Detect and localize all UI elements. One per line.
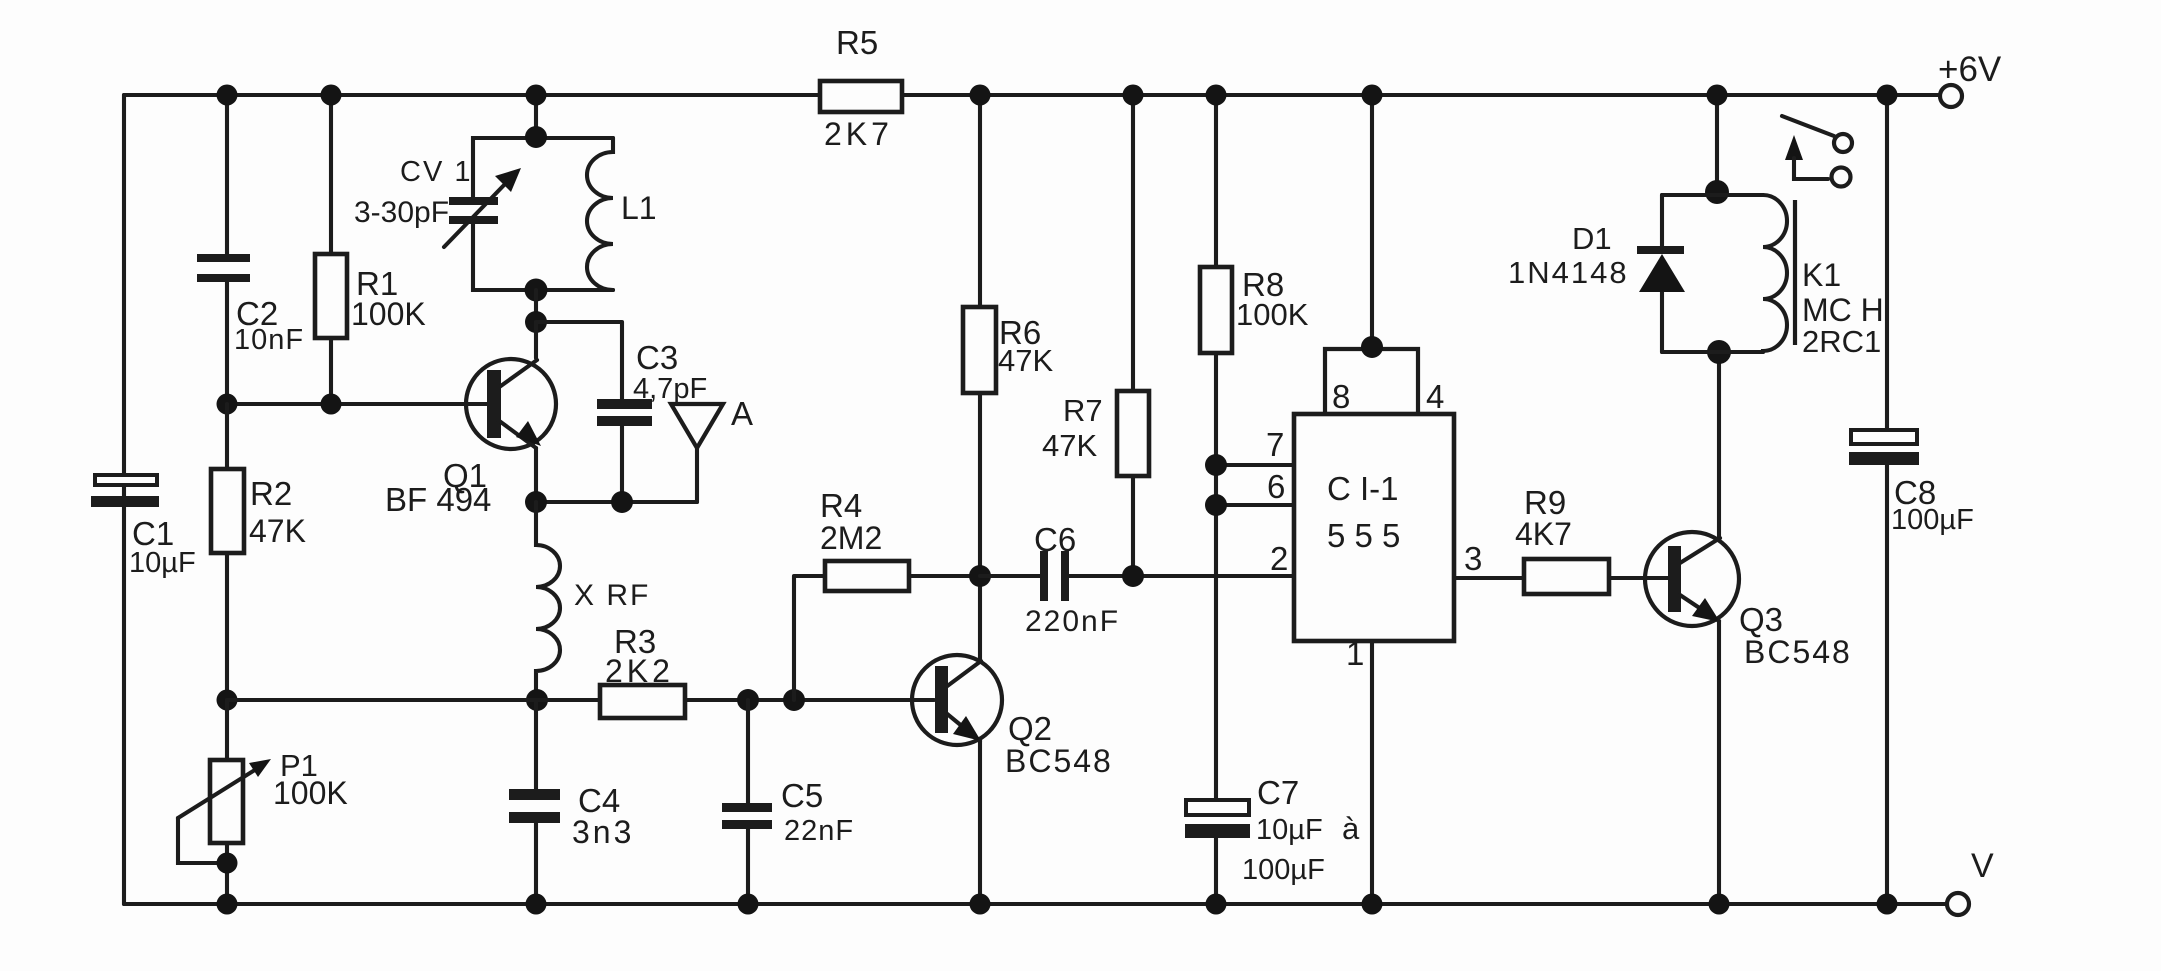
wire: C6 to 555 pin 2 (trigger net) — [1069, 574, 1294, 578]
wire: Q1 base net (C2, R1, R2 junction to base) — [227, 402, 487, 406]
resistor R9 4K7 — [1515, 484, 1668, 594]
node: pin 6 tap — [1205, 494, 1227, 516]
node: bottom rail at C5 column — [738, 894, 759, 915]
svg-text:22nF: 22nF — [784, 815, 854, 847]
svg-text:47K: 47K — [998, 343, 1053, 378]
node: pin 7 tap — [1205, 454, 1227, 476]
wire: R8 / C7 column — [1214, 95, 1218, 904]
svg-text:C7: C7 — [1257, 774, 1299, 811]
node: base net at R1 column — [321, 394, 342, 415]
svg-text:220nF: 220nF — [1025, 605, 1120, 638]
svg-text:R4: R4 — [820, 487, 862, 524]
wire: P1 column — [225, 700, 229, 904]
node: emitter net at R2 column — [217, 690, 238, 711]
svg-text:D1: D1 — [1572, 221, 1612, 256]
terminal: +6V — [1938, 50, 2002, 107]
node: top rail junction at C2 column — [217, 85, 238, 106]
svg-text:2K2: 2K2 — [605, 653, 674, 689]
svg-text:47K: 47K — [1042, 428, 1097, 463]
svg-text:4,7pF: 4,7pF — [633, 373, 707, 405]
resistor R4 2M2 — [820, 487, 980, 591]
svg-text:BC548: BC548 — [1744, 634, 1852, 670]
op-amp/IC CI-1 555 — [1266, 378, 1482, 672]
node: bottom rail at pin 1 — [1362, 894, 1383, 915]
svg-text:+6V: +6V — [1938, 50, 2002, 89]
svg-text:2M2: 2M2 — [820, 520, 882, 556]
svg-text:8: 8 — [1332, 378, 1350, 415]
svg-text:Q3: Q3 — [1739, 601, 1783, 638]
node: P1 wiper tie to bottom terminal — [217, 853, 238, 874]
potentiometer P1 100K (rheostat) — [178, 748, 348, 863]
wire: pin 6 link — [1216, 503, 1294, 507]
wire: bottom 0V rail — [124, 902, 1947, 906]
svg-text:1: 1 — [1346, 635, 1364, 672]
wire: R7 column — [1131, 95, 1135, 576]
svg-text:100K: 100K — [273, 775, 348, 811]
svg-text:10µF: 10µF — [129, 547, 196, 579]
svg-text:C5: C5 — [781, 777, 823, 814]
svg-text:R2: R2 — [250, 475, 292, 512]
node: R7 tap on trigger net — [1122, 565, 1144, 587]
node: top rail junction at R6 — [970, 85, 991, 106]
node: top rail junction at tank column — [526, 85, 547, 106]
node: C5 junction — [737, 689, 759, 711]
node: XRF / R3 / R2 junction — [526, 689, 548, 711]
capacitor C1 10uF (electrolytic, left branch) — [91, 475, 196, 579]
svg-text:Q2: Q2 — [1008, 710, 1052, 747]
wire: C4 column — [534, 700, 538, 904]
wire: R6 / Q2 collector column — [978, 95, 982, 576]
wire: D1/coil top and bottom links — [1662, 195, 1763, 352]
wire: C8 column — [1885, 95, 1889, 904]
wire: left border (C1 branch from +6V rail to 0V rail) — [122, 95, 126, 904]
wire: tank column from +6V rail — [534, 95, 538, 138]
svg-text:BF 494: BF 494 — [385, 481, 491, 518]
resistor R3 2K2 — [600, 623, 685, 718]
node: R4 junction — [783, 689, 805, 711]
node: bottom rail at C4 column — [526, 894, 547, 915]
relay contact switch — [1782, 116, 1852, 187]
node: bottom rail at P1 column — [217, 894, 238, 915]
wire: pin 3 output to R9 — [1454, 576, 1524, 580]
svg-text:CV 1: CV 1 — [400, 156, 472, 188]
svg-text:3n3: 3n3 — [572, 814, 634, 850]
svg-text:100µF: 100µF — [1242, 854, 1325, 886]
node: emitter junction — [525, 491, 547, 513]
node: base net at C2 column — [217, 394, 238, 415]
capacitor C7 10uF a 100uF (electrolytic) — [1185, 774, 1360, 886]
svg-text:C6: C6 — [1034, 521, 1076, 558]
node: R4 / C6 / collector junction — [969, 565, 991, 587]
svg-text:47K: 47K — [249, 513, 306, 549]
wire: LC tank loop (top, left branch, bottom) — [473, 138, 613, 290]
wire: emitter bias net — [227, 698, 600, 702]
resistor R7 47K — [1042, 391, 1149, 476]
svg-text:A: A — [731, 395, 753, 432]
svg-text:5 5 5: 5 5 5 — [1327, 517, 1400, 554]
resistor R6 47K — [963, 307, 1053, 393]
svg-text:R7: R7 — [1063, 393, 1103, 428]
wire: Q1 emitter node to antenna tap — [536, 448, 697, 502]
node: tank bottom junction — [525, 279, 548, 302]
resistor R5 2K7 (supply rail) — [820, 24, 902, 152]
node: top rail junction at relay — [1707, 85, 1728, 106]
capacitor C2 10nF — [197, 254, 304, 356]
svg-text:C3: C3 — [636, 339, 678, 376]
node: relay top junction — [1705, 180, 1729, 204]
transistor Q1 BF494 — [385, 322, 556, 518]
wire: relay column from +6V rail — [1715, 95, 1719, 192]
svg-text:V: V — [1971, 847, 1994, 885]
wire: tank bottom to Q1 collector node — [534, 290, 538, 322]
wire: R1 column — [329, 95, 333, 404]
resistor R2 47K — [211, 469, 306, 553]
wire: C5 column — [746, 700, 750, 904]
svg-text:3-30pF: 3-30pF — [354, 196, 449, 229]
relay coil K1 MCH 2RC1 — [1763, 195, 1884, 359]
node: bottom rail at C7 column — [1206, 894, 1227, 915]
capacitor C4 3n3 — [509, 782, 634, 850]
node: top rail junction at C8 — [1877, 85, 1898, 106]
svg-text:10nF: 10nF — [234, 324, 304, 356]
svg-text:100K: 100K — [351, 296, 426, 332]
inductor XRF (RF choke) — [536, 502, 650, 700]
svg-text:6: 6 — [1267, 468, 1285, 505]
svg-text:C I-1: C I-1 — [1327, 470, 1399, 507]
inductor L1 (tank coil) — [587, 138, 657, 290]
resistor R8 100K — [1200, 266, 1309, 353]
wire: C2/R2 column top — [225, 95, 229, 404]
node: bottom rail at Q2 emitter — [970, 894, 991, 915]
svg-text:2K7: 2K7 — [824, 116, 893, 152]
resistor R1 100K — [315, 254, 426, 338]
node: bottom rail at C8 column — [1877, 894, 1898, 915]
node: top rail junction at R7 — [1123, 85, 1144, 106]
terminal: V (0V output) — [1947, 847, 1994, 915]
svg-text:R5: R5 — [836, 24, 878, 61]
transistor Q3 BC548 — [1645, 352, 1852, 904]
wire: collector node to C3 top — [536, 322, 622, 399]
variable capacitor CV1 3-30pF — [354, 156, 521, 247]
wire: supply column to bracket — [1370, 95, 1374, 349]
svg-text:BC548: BC548 — [1005, 743, 1113, 779]
capacitor C3 4,7pF — [597, 339, 707, 502]
svg-text:4K7: 4K7 — [1515, 516, 1572, 552]
wire: +6V top supply rail — [124, 93, 1940, 97]
capacitor C5 22nF — [722, 777, 854, 847]
capacitor C8 100uF (electrolytic) — [1849, 430, 1974, 536]
node: C3 bottom junction — [611, 491, 633, 513]
node: bottom rail at Q3 emitter — [1709, 894, 1730, 915]
svg-text:4: 4 — [1426, 378, 1444, 415]
node: top rail junction at R1 column — [321, 85, 342, 106]
svg-text:100K: 100K — [1236, 297, 1309, 332]
svg-text:K1: K1 — [1802, 257, 1841, 293]
svg-text:à: à — [1342, 811, 1360, 846]
antenna A — [671, 395, 753, 502]
wire: R4 riser from base net — [794, 576, 825, 700]
node: top rail junction at 555 supply — [1362, 85, 1383, 106]
diode D1 1N4148 — [1508, 195, 1685, 352]
svg-text:X RF: X RF — [574, 579, 650, 612]
svg-text:L1: L1 — [621, 190, 657, 226]
wire: R2 column — [225, 404, 229, 700]
svg-text:10µF: 10µF — [1256, 814, 1323, 846]
svg-text:1N4148: 1N4148 — [1508, 255, 1629, 290]
wire: pin 1 to 0V rail — [1370, 641, 1374, 904]
wire: R3 to Q2 base — [685, 698, 934, 702]
node: top rail junction at R8 — [1206, 85, 1227, 106]
wire: pins 8/4 supply bracket — [1325, 349, 1418, 414]
svg-text:MC H: MC H — [1802, 292, 1884, 328]
svg-text:100µF: 100µF — [1891, 504, 1974, 536]
node: relay bottom junction — [1707, 340, 1731, 364]
capacitor C6 220nF — [980, 521, 1120, 638]
node: Q1 collector / C3 junction — [525, 311, 547, 333]
svg-text:2RC1: 2RC1 — [1802, 324, 1881, 359]
svg-text:3: 3 — [1464, 540, 1482, 577]
wire: pin 7 link — [1216, 463, 1294, 467]
node: tank top junction — [525, 126, 547, 148]
svg-text:2: 2 — [1270, 540, 1288, 577]
transistor Q2 BC548 — [912, 576, 1113, 904]
svg-text:7: 7 — [1266, 426, 1284, 463]
node: bracket junction — [1361, 336, 1383, 358]
